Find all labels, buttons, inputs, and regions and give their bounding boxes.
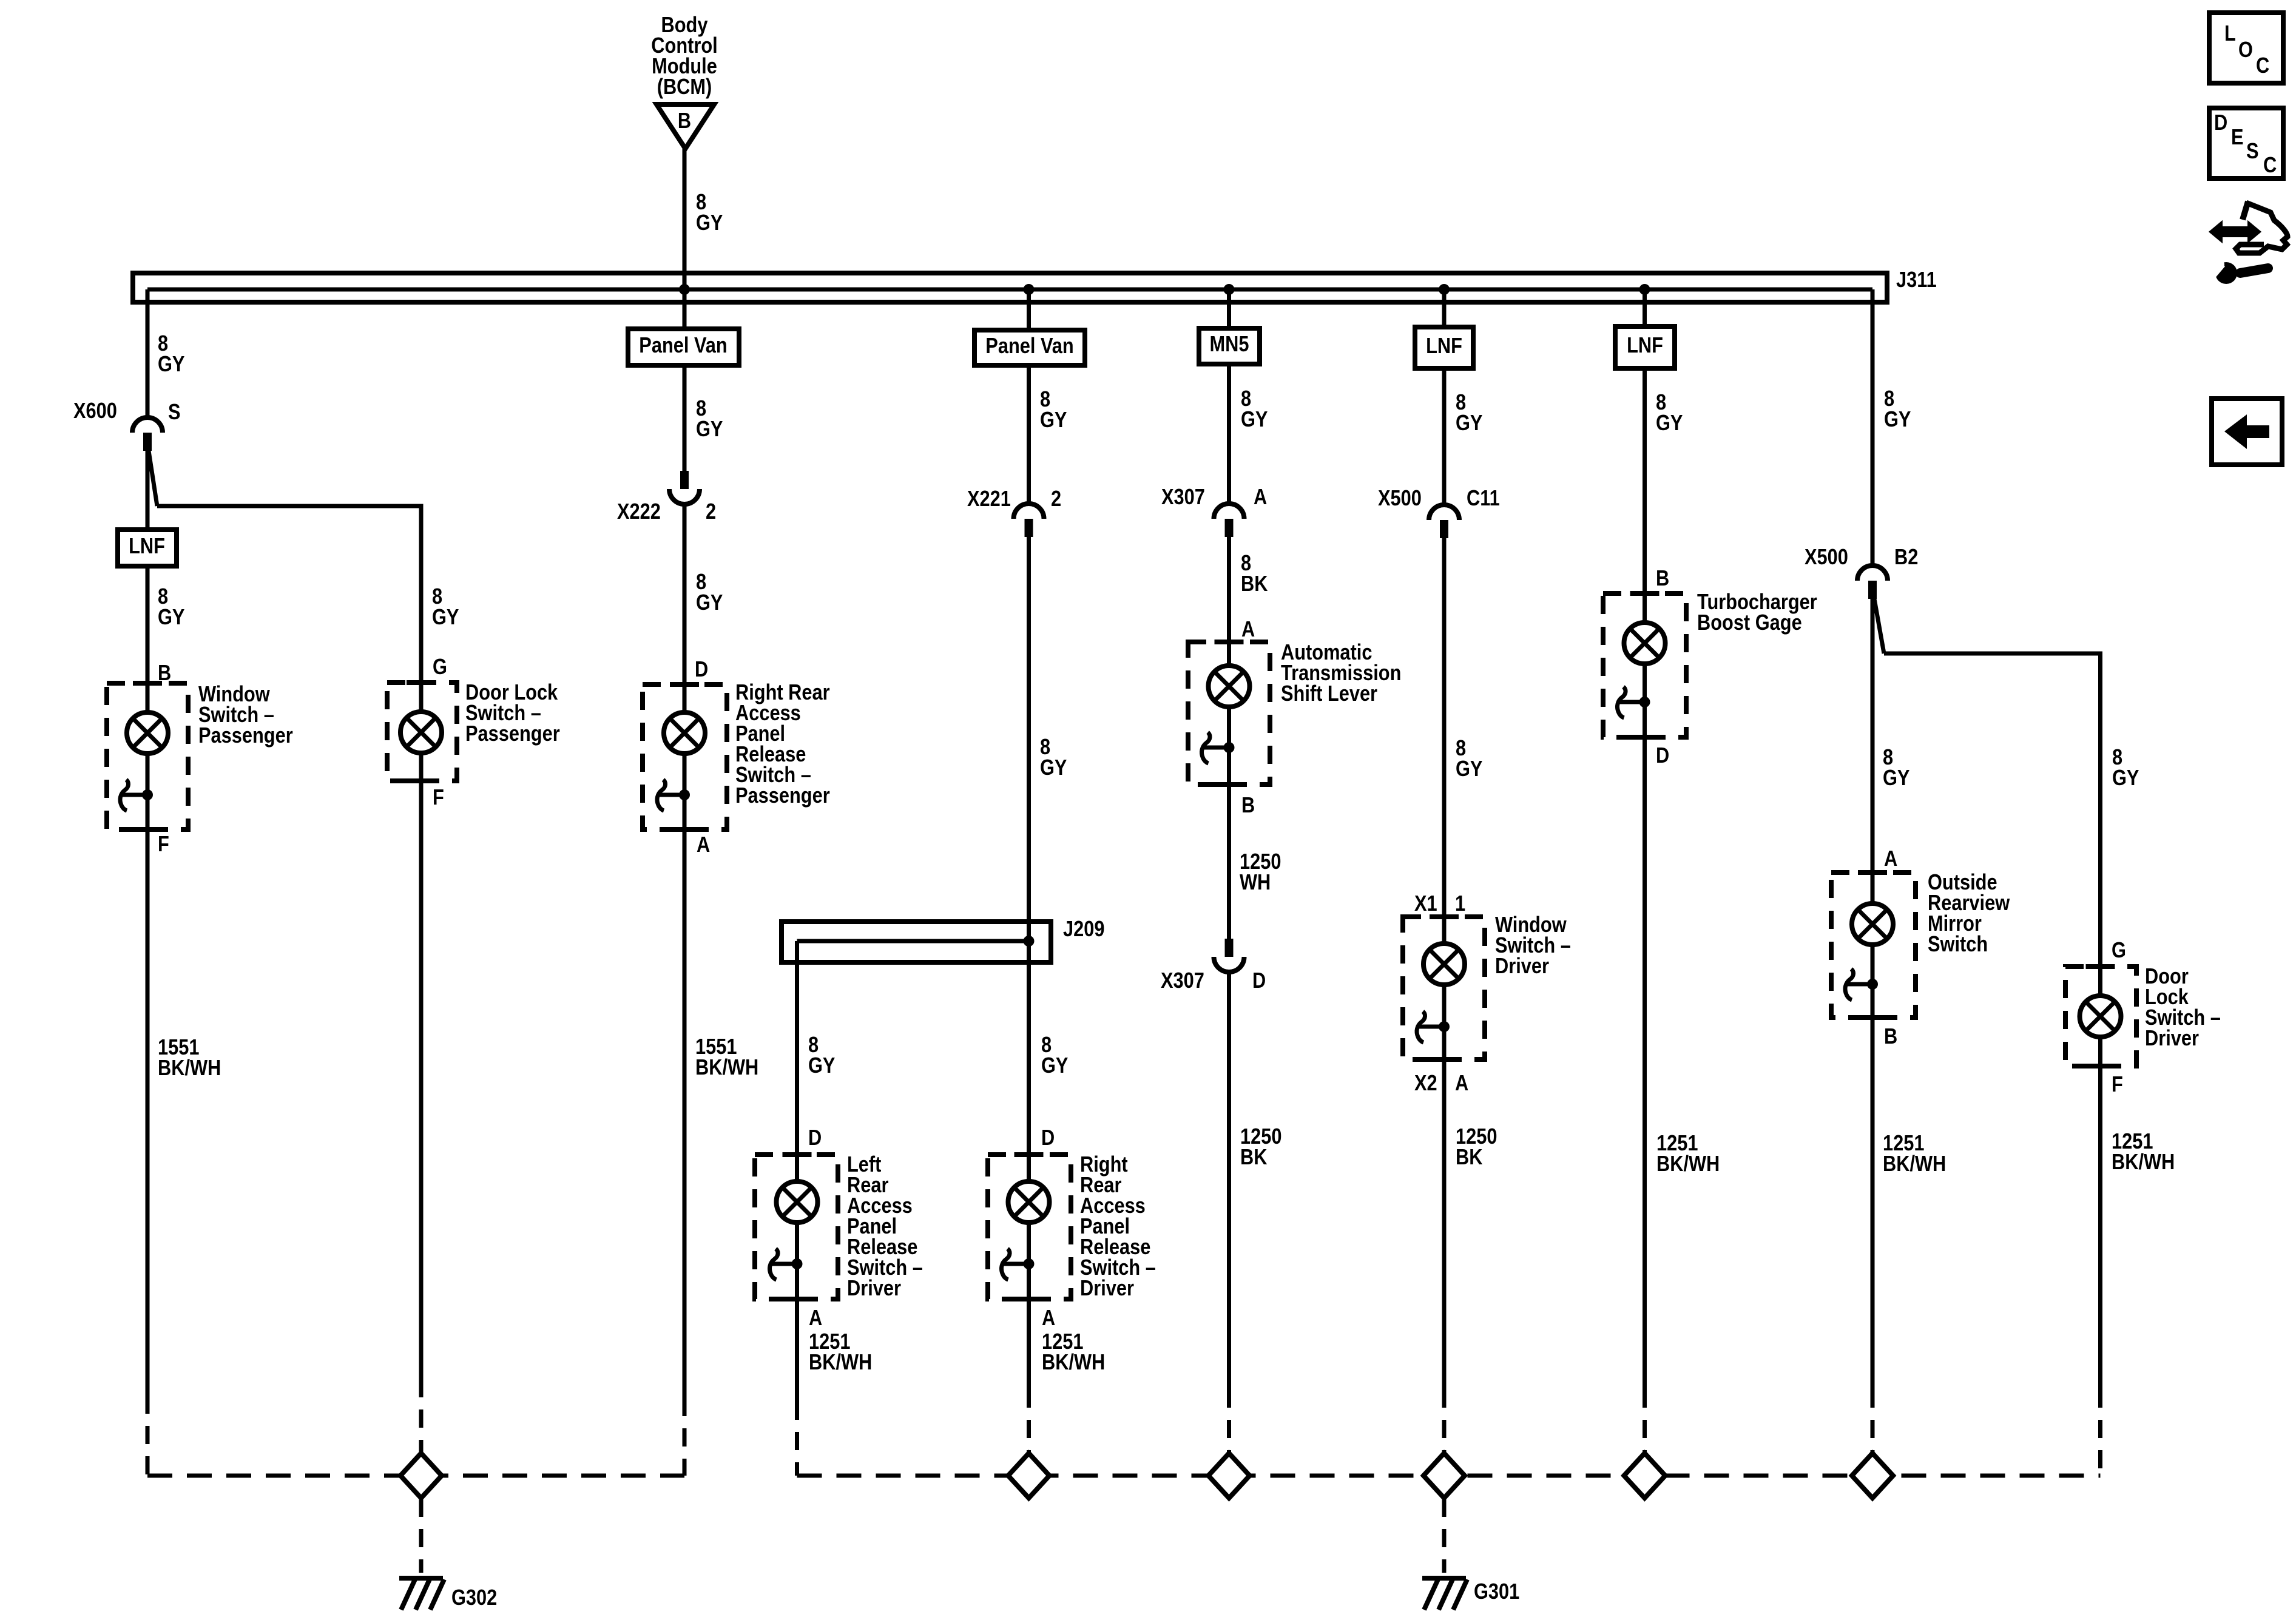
svg-text:BK/WH: BK/WH: [1656, 1152, 1720, 1176]
label X1: [1414, 892, 1437, 916]
svg-text:X1: X1: [1414, 892, 1437, 916]
svg-text:Panel Van: Panel Van: [639, 334, 727, 358]
label 8 GY (col4a): [808, 1033, 835, 1078]
switch hook RR APRS - Passenger: [657, 780, 666, 811]
splice pack bus J311 outer: [133, 273, 1887, 302]
svg-text:D: D: [695, 658, 708, 682]
svg-text:GY: GY: [1040, 756, 1067, 780]
label 8 GY (col6 lower): [1456, 737, 1482, 781]
label pin B (col7): [1656, 567, 1669, 591]
label pin F (col9): [2112, 1073, 2123, 1097]
svg-text:GY: GY: [1456, 411, 1482, 436]
label 8 GY (col2): [432, 585, 459, 630]
label G301: [1474, 1580, 1519, 1604]
label pin D: [695, 658, 708, 682]
lamp Door Lock Switch - Passenger: [400, 712, 442, 753]
svg-text:BK/WH: BK/WH: [695, 1056, 758, 1080]
svg-text:D: D: [1041, 1126, 1055, 1150]
wire horizontal run to Door Lock Switch - Passenger: [157, 506, 421, 713]
label 1251 BK/WH (col8): [1883, 1132, 1946, 1176]
switch box Window Switch - Driver: [1403, 917, 1485, 1059]
dashed wire col9 to ground bus: [2098, 1389, 2102, 1476]
wire J311 to Panel Van (col3): [683, 289, 687, 329]
lamp Door Lock Switch - Driver: [2080, 996, 2121, 1037]
label pin C11: [1467, 487, 1500, 511]
dashed wire col7 to diamond: [1643, 1389, 1647, 1453]
svg-text:C: C: [2256, 54, 2269, 78]
switch box Door Lock Switch - Driver: [2065, 967, 2136, 1066]
svg-text:GY: GY: [808, 1054, 835, 1078]
wire branch slant X600 to door-lock run: [149, 451, 157, 506]
svg-text:F: F: [2112, 1073, 2123, 1097]
lamp Outside Rearview Mirror Switch: [1852, 903, 1893, 945]
svg-text:LNF: LNF: [1426, 334, 1462, 359]
wire LNF to Turbocharger Boost Gage: [1643, 368, 1647, 623]
svg-text:MN5: MN5: [1210, 333, 1249, 357]
label pin F: [158, 832, 169, 857]
svg-text:J311: J311: [1896, 268, 1937, 292]
icon box DESC: [2209, 108, 2283, 178]
junction dot J311 at x=2710.5: [1639, 284, 1650, 295]
svg-text:X600: X600: [73, 399, 117, 424]
label Automatic Transmission Shift Lever: [1281, 641, 1401, 706]
switch box Automatic Transmission Shift Lever: [1188, 642, 1270, 785]
ground bus diamond col5: [1209, 1453, 1250, 1498]
label Door Lock Switch - Passenger: [465, 681, 560, 746]
junction dot J311 at x=2025.5: [1224, 284, 1235, 295]
dashed wire col4b to diamond: [1027, 1389, 1031, 1453]
label X222: [617, 500, 661, 524]
label Body Control Module (BCM): [651, 13, 717, 100]
option box Panel Van (col4): [974, 330, 1085, 365]
wire col8 below lamp: [1871, 944, 1875, 1389]
svg-text:BK/WH: BK/WH: [1883, 1152, 1946, 1176]
label pin A (ATSL): [1241, 618, 1255, 642]
label X2: [1414, 1072, 1437, 1096]
dashed wire col4a to ground bus: [795, 1402, 799, 1476]
label 1551 BK/WH (col3): [695, 1035, 758, 1080]
svg-text:GY: GY: [1456, 757, 1482, 781]
svg-text:A: A: [809, 1306, 822, 1331]
connector X221 pin 2: [1014, 504, 1044, 537]
label pin B2: [1894, 545, 1918, 570]
switch box Left Rear Access Panel Release Switch - Driver: [755, 1155, 838, 1299]
svg-text:A: A: [1455, 1072, 1468, 1096]
dashed wire diamond to G302: [419, 1499, 424, 1573]
label 8 GY (col3): [696, 570, 723, 615]
wire horizontal run to Door Lock Switch - Driver: [1884, 653, 2101, 996]
switch hook Turbocharger Boost Gage: [1618, 687, 1626, 718]
label 8 GY (col7): [1656, 391, 1683, 436]
svg-text:1: 1: [1455, 892, 1465, 916]
switch box Outside Rearview Mirror Switch: [1831, 873, 1916, 1018]
svg-text:LNF: LNF: [1627, 334, 1663, 358]
wire LNF to Window Switch - Passenger: [146, 566, 150, 713]
label X307: [1161, 485, 1205, 510]
switch hook Window Switch - Passenger: [120, 780, 129, 811]
wire X500 B2 down to mirror switch: [1871, 599, 1875, 904]
wire X600 to LNF box: [146, 451, 150, 530]
svg-text:D: D: [1656, 744, 1669, 768]
svg-text:GY: GY: [696, 211, 723, 235]
wire col9 below box: [2098, 1037, 2102, 1389]
wire BCM B to J311: [683, 149, 687, 288]
svg-text:B2: B2: [1894, 545, 1918, 570]
icon double arrow with component and wrench: [2199, 201, 2288, 284]
icon box back arrow: [2212, 399, 2282, 465]
switch hook Window Switch - Driver: [1417, 1011, 1425, 1042]
label Door Lock Switch - Driver: [2145, 965, 2221, 1051]
wire X221 through J209 to RR APRS driver: [1027, 537, 1031, 1186]
dashed wire col3 to ground bus: [683, 1398, 687, 1476]
junction dot J311 at x=2380: [1439, 284, 1450, 295]
wire col4a below lamp: [795, 1222, 799, 1402]
label X307 (lower): [1161, 969, 1204, 993]
lamp Turbocharger Boost Gage: [1624, 623, 1666, 664]
svg-text:Boost Gage: Boost Gage: [1697, 611, 1802, 635]
connector X500 pin B2: [1857, 565, 1888, 599]
svg-text:G: G: [2112, 939, 2126, 963]
label 1250 WH: [1240, 850, 1281, 895]
label pin F: [433, 786, 444, 810]
wire col2 below box: [419, 753, 424, 1379]
label X500 (B2): [1805, 545, 1848, 570]
svg-text:G: G: [433, 655, 447, 680]
svg-text:(BCM): (BCM): [657, 75, 712, 100]
label pin 2: [706, 500, 716, 524]
svg-text:GY: GY: [696, 591, 723, 615]
label pin A (col6): [1455, 1072, 1468, 1096]
switch box Right Rear Access Panel Release Switch - Passenger: [643, 684, 727, 829]
lamp Automatic Transmission Shift Lever: [1209, 666, 1250, 707]
label 8 GY (col5): [1241, 387, 1268, 432]
switch hook Automatic Transmission Shift Lever: [1202, 732, 1210, 763]
svg-text:Passenger: Passenger: [465, 722, 560, 746]
option box Panel Van (col3): [628, 329, 739, 365]
ground bus diamond col4b: [1008, 1453, 1050, 1498]
label G302: [451, 1586, 497, 1610]
lamp Window Switch - Driver: [1423, 944, 1465, 985]
lamp Window Switch - Passenger: [127, 712, 168, 754]
svg-text:A: A: [1254, 485, 1267, 510]
svg-text:GY: GY: [1884, 408, 1911, 432]
label pin A (col4b): [1042, 1306, 1055, 1331]
wire X222 to switch: [683, 503, 687, 713]
svg-text:BK: BK: [1240, 1146, 1267, 1170]
ground symbol G301: [1422, 1578, 1467, 1610]
svg-text:F: F: [433, 786, 444, 810]
option box LNF (col1): [118, 530, 177, 566]
wire J311 to LNF (col7): [1643, 289, 1647, 326]
wire LNF to X500 C11: [1442, 368, 1447, 506]
icon box LOC: [2209, 13, 2283, 83]
label 8 GY (col3 above X222): [696, 397, 723, 442]
svg-text:Driver: Driver: [1080, 1277, 1134, 1301]
label pin A (X307): [1254, 485, 1267, 510]
switch box Right Rear Access Panel Release Switch - Driver: [988, 1155, 1071, 1299]
label 1251 BK/WH (col9): [2112, 1130, 2175, 1175]
svg-text:BK/WH: BK/WH: [1042, 1351, 1105, 1375]
svg-text:Panel Van: Panel Van: [985, 334, 1073, 359]
svg-text:B: B: [678, 109, 691, 133]
label 8 GY (col1 top): [158, 332, 184, 377]
dashed wire col2 to ground bus: [419, 1379, 424, 1453]
svg-text:GY: GY: [1241, 408, 1268, 432]
switch box Window Switch - Passenger: [107, 683, 188, 829]
label 1251 BK/WH (col4b): [1042, 1330, 1105, 1375]
junction dot J209: [1024, 936, 1035, 947]
module connector triangle B (BCM): [657, 104, 714, 149]
label pin D (col4a): [808, 1126, 822, 1150]
label pin B: [158, 661, 171, 686]
label pin B (ATSL): [1241, 794, 1255, 818]
svg-text:A: A: [1241, 618, 1255, 642]
svg-text:LNF: LNF: [129, 535, 165, 559]
svg-text:B: B: [1241, 794, 1255, 818]
label Left Rear Access Panel Release Switch - Driver: [847, 1153, 923, 1301]
label 1250 BK (col5): [1240, 1125, 1281, 1170]
svg-text:GY: GY: [432, 606, 459, 630]
wire X500 C11 to Window Switch - Driver: [1442, 538, 1447, 944]
connector X500 pin C11: [1429, 505, 1459, 538]
svg-text:F: F: [158, 832, 169, 857]
label 8 GY (BCM wire): [696, 191, 723, 235]
wire col6 below lamp: [1442, 984, 1447, 1389]
svg-text:D: D: [2214, 111, 2227, 135]
wire col4b below lamp: [1027, 1222, 1031, 1389]
option box MN5: [1199, 328, 1260, 364]
junction dot J311 at x=1128: [679, 284, 690, 295]
dashed wire col5 to diamond: [1227, 1389, 1231, 1453]
switch box Turbocharger Boost Gage: [1603, 593, 1686, 737]
svg-text:G301: G301: [1474, 1580, 1519, 1604]
label Right Rear Access Panel Release Switch - Driver: [1080, 1153, 1156, 1301]
switch hook LR APRS - Driver: [770, 1249, 778, 1280]
ground bus diamond col8: [1852, 1453, 1893, 1498]
label 8 GY (col8 top): [1884, 387, 1911, 432]
svg-text:Switch: Switch: [1928, 933, 1988, 957]
label pin 2 (X221): [1051, 487, 1061, 511]
svg-text:BK/WH: BK/WH: [2112, 1150, 2175, 1175]
svg-text:Passenger: Passenger: [198, 724, 293, 748]
svg-text:GY: GY: [1883, 766, 1909, 791]
svg-text:C: C: [2263, 154, 2277, 178]
lamp LR APRS - Driver: [777, 1181, 818, 1223]
svg-text:Driver: Driver: [1495, 954, 1549, 979]
splice pack bus J311 inner line: [147, 288, 1872, 292]
wire J311 to LNF (col6): [1442, 289, 1447, 327]
dashed ground bus left (G302): [147, 1474, 684, 1478]
svg-text:Driver: Driver: [847, 1277, 901, 1301]
label Right Rear Access Panel Release Switch - Passenger: [735, 681, 830, 808]
svg-text:A: A: [1042, 1306, 1055, 1331]
svg-text:S: S: [168, 400, 181, 425]
lamp RR APRS - Passenger: [664, 712, 705, 754]
label 1250 BK (col6): [1456, 1125, 1497, 1170]
svg-text:X500: X500: [1378, 487, 1422, 511]
svg-text:G302: G302: [451, 1586, 497, 1610]
splice pack J209 box: [782, 922, 1051, 962]
svg-text:X222: X222: [617, 500, 661, 524]
wire J311 left end down to X600: [146, 289, 150, 419]
connector X600 pin S: [132, 417, 163, 451]
svg-text:Passenger: Passenger: [735, 784, 830, 808]
label 8 GY (col9): [2112, 746, 2139, 791]
svg-text:X500: X500: [1805, 545, 1848, 570]
svg-text:BK: BK: [1456, 1146, 1482, 1170]
wire J311 right end to X500 B2: [1871, 289, 1875, 567]
wire col3 below lamp: [683, 753, 687, 1398]
connector X222 pin 2: [669, 471, 700, 504]
svg-text:WH: WH: [1240, 871, 1271, 895]
label X221: [967, 487, 1011, 511]
label 8 BK: [1241, 552, 1268, 596]
svg-text:D: D: [1252, 969, 1266, 993]
label X600: [73, 399, 117, 424]
svg-text:BK/WH: BK/WH: [158, 1056, 221, 1081]
label 8 GY (col8 lower): [1883, 746, 1909, 791]
svg-text:X307: X307: [1161, 485, 1205, 510]
wire J209 to Left Rear APRS - Driver: [795, 941, 799, 1186]
wire X307 D down: [1227, 971, 1231, 1389]
junction dot J311 at x=1695.5: [1024, 284, 1035, 295]
label pin G: [433, 655, 447, 680]
svg-text:L: L: [2224, 22, 2236, 46]
svg-text:GY: GY: [1041, 1054, 1068, 1078]
svg-text:B: B: [1884, 1025, 1897, 1049]
wire J311 to MN5: [1227, 289, 1231, 328]
label pin A: [697, 833, 710, 857]
ground bus diamond col7: [1624, 1453, 1666, 1498]
label J209: [1063, 917, 1104, 942]
label pin B (col8): [1884, 1025, 1897, 1049]
svg-text:E: E: [2231, 126, 2244, 150]
wire Panel Van to X221: [1027, 365, 1031, 505]
svg-text:2: 2: [706, 500, 716, 524]
ground bus diamond G302 splice: [400, 1453, 442, 1498]
switch hook Outside Rearview Mirror Switch: [1845, 969, 1854, 1000]
switch box Door Lock Switch - Passenger: [387, 683, 457, 781]
svg-text:GY: GY: [696, 417, 723, 442]
wire col7 below lamp: [1643, 663, 1647, 1389]
ground symbol G302: [399, 1578, 444, 1610]
svg-text:X2: X2: [1414, 1072, 1437, 1096]
label 8 GY (col4 above X221): [1040, 388, 1067, 433]
svg-text:S: S: [2246, 140, 2259, 164]
svg-text:GY: GY: [2112, 766, 2139, 791]
svg-text:BK: BK: [1241, 572, 1268, 596]
switch hook RR APRS - Driver: [1002, 1249, 1010, 1280]
svg-text:GY: GY: [1656, 411, 1683, 436]
label pin A (col4a): [809, 1306, 822, 1331]
svg-text:GY: GY: [158, 353, 184, 377]
label pin 1: [1455, 892, 1465, 916]
label 8 GY (col1 lower): [158, 585, 184, 630]
label 8 GY (col4 between): [1040, 735, 1067, 780]
svg-text:C11: C11: [1467, 487, 1500, 511]
ground bus diamond G301 splice: [1423, 1453, 1465, 1498]
label J311: [1896, 268, 1937, 292]
label X500: [1378, 487, 1422, 511]
wire Panel Van to X222: [683, 365, 687, 471]
dashed wire col1 to ground bus: [146, 1396, 150, 1476]
connector X307 pin D: [1214, 939, 1244, 972]
label Window Switch - Driver: [1495, 913, 1571, 979]
dashed wire col6 to diamond: [1442, 1389, 1447, 1453]
label 8 GY (col4b): [1041, 1033, 1068, 1078]
connector X307 pin A: [1214, 504, 1244, 537]
label pin A (col8): [1884, 847, 1897, 871]
option box LNF (col6): [1415, 327, 1473, 368]
label pin D (col4b): [1041, 1126, 1055, 1150]
dashed wire col8 to diamond: [1871, 1389, 1875, 1453]
splice pack J209 inner line: [797, 939, 1029, 944]
label pin D (col7): [1656, 744, 1669, 768]
label 1251 BK/WH (col7): [1656, 1132, 1720, 1176]
svg-text:X307: X307: [1161, 969, 1204, 993]
wire col5 below lamp: [1227, 706, 1231, 939]
svg-text:GY: GY: [1040, 408, 1067, 433]
svg-text:O: O: [2238, 38, 2253, 62]
svg-text:D: D: [808, 1126, 822, 1150]
wire branch slant X500 B2 to door-lock driver run: [1874, 599, 1884, 653]
label Turbocharger Boost Gage: [1697, 590, 1817, 635]
dashed ground bus right (G301): [797, 1474, 2101, 1478]
dashed wire diamond to G301: [1442, 1499, 1447, 1573]
label Window Switch - Passenger: [198, 683, 293, 748]
lamp RR APRS - Driver: [1008, 1181, 1050, 1223]
label pin G (col9): [2112, 939, 2126, 963]
svg-text:BK/WH: BK/WH: [809, 1351, 872, 1375]
svg-text:Shift Lever: Shift Lever: [1281, 682, 1377, 706]
option box LNF (col7): [1615, 326, 1675, 368]
wire MN5 to X307: [1227, 364, 1231, 505]
label pin D (X307 lower): [1252, 969, 1266, 993]
svg-text:J209: J209: [1063, 917, 1104, 942]
label 8 GY (col6 top): [1456, 391, 1482, 436]
wire inside box col1: [146, 753, 150, 1396]
label 1551 BK/WH (col1): [158, 1036, 221, 1081]
svg-text:A: A: [1884, 847, 1897, 871]
label Outside Rearview Mirror Switch: [1928, 871, 2010, 957]
svg-text:X221: X221: [967, 487, 1011, 511]
label 1251 BK/WH (col4a): [809, 1330, 872, 1375]
label pin S: [168, 400, 181, 425]
svg-text:A: A: [697, 833, 710, 857]
wire J311 to Panel Van (col4): [1027, 289, 1031, 330]
svg-text:GY: GY: [158, 606, 184, 630]
svg-text:2: 2: [1051, 487, 1061, 511]
svg-text:B: B: [1656, 567, 1669, 591]
wire X307 to shift lever: [1227, 537, 1231, 666]
svg-text:Driver: Driver: [2145, 1027, 2199, 1051]
